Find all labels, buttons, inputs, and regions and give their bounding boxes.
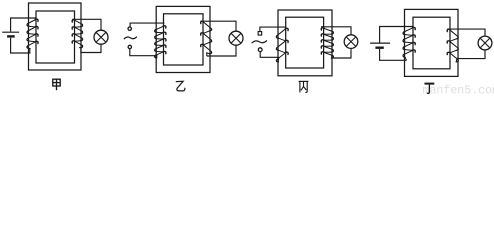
transformer core T2 inner xyxy=(164,14,204,65)
battery G1 xyxy=(2,32,19,36)
wire AC source G3 top terminal to primary coil L5 xyxy=(260,27,286,31)
lamp EL3 xyxy=(344,35,358,49)
transformer core T1 outer xyxy=(29,3,82,70)
label 甲 xyxy=(53,79,60,90)
watermark manfen5.com xyxy=(423,84,494,97)
primary coil L5 xyxy=(276,28,288,62)
transformer core T4 outer xyxy=(405,9,459,76)
transformer core T3 inner xyxy=(286,17,324,68)
transformer core T4 inner xyxy=(413,17,450,69)
wire lamp EL3 bottom to secondary L6 xyxy=(332,48,351,58)
AC source G3 tilde xyxy=(252,41,267,43)
lamp EL4 xyxy=(478,36,492,50)
label 丙 xyxy=(299,81,309,92)
transformer core T1 inner xyxy=(36,11,75,63)
transformer core T3 outer xyxy=(278,10,332,76)
AC source G3 top terminal xyxy=(258,32,262,36)
primary coil L7 xyxy=(403,27,415,60)
wire lamp EL2 bottom to secondary L4 xyxy=(207,45,236,56)
lamp EL2 xyxy=(229,31,243,45)
wire secondary L4 bottom lead xyxy=(206,52,208,56)
label 丁 xyxy=(425,84,435,94)
wire secondary L6 to lamp EL3 top xyxy=(321,27,351,35)
wire AC source G2 bottom terminal to primary coil L3 xyxy=(130,49,157,56)
battery G4 xyxy=(370,43,390,48)
svg-text:manfen5.com: manfen5.com xyxy=(423,84,494,95)
wire AC source G3 bottom terminal to primary coil L5 xyxy=(260,52,278,58)
label 乙 xyxy=(176,81,185,91)
wire battery G4 positive to primary coil L7 xyxy=(380,27,413,43)
secondary coil L6 xyxy=(321,28,333,58)
AC source G3 bottom terminal xyxy=(258,48,262,52)
wire secondary L8 to lamp EL4 top xyxy=(447,29,485,36)
wire lamp EL1 bottom to secondary L2 xyxy=(81,44,101,52)
AC source G2 tilde xyxy=(124,37,136,39)
AC source G2 top terminal xyxy=(128,27,131,30)
secondary coil L8 xyxy=(447,29,458,62)
wire lamp EL4 bottom to secondary L8 xyxy=(457,50,485,59)
transformer core T2 outer xyxy=(156,6,210,72)
wire battery G1 negative to primary coil L1 xyxy=(11,38,30,53)
AC source G2 bottom terminal xyxy=(128,45,131,48)
primary coil L3 xyxy=(155,26,166,58)
primary coil L1 xyxy=(27,19,38,48)
wire AC source G2 top terminal to primary coil L3 xyxy=(130,23,164,27)
wire battery G4 negative to primary coil L7 xyxy=(380,49,407,60)
secondary coil L2 xyxy=(72,20,82,48)
secondary coil L4 xyxy=(201,21,212,54)
wire battery G1 positive to primary coil L1 xyxy=(11,18,36,32)
wire secondary L2 to lamp EL1 top xyxy=(72,19,101,30)
wire secondary L4 to lamp EL2 top xyxy=(200,21,236,31)
lamp EL1 xyxy=(94,30,108,44)
